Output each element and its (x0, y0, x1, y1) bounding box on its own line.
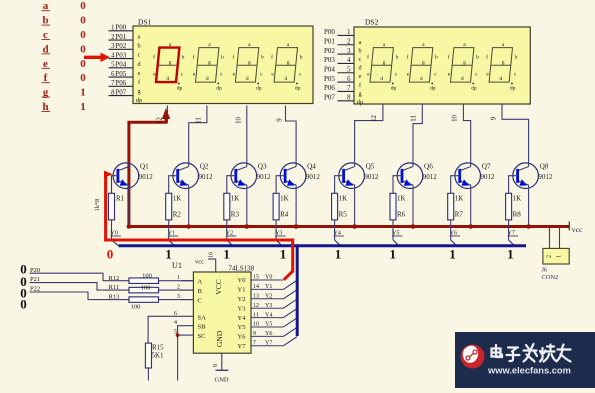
svg-text:b: b (515, 55, 518, 61)
svg-text:9: 9 (277, 118, 284, 122)
transistor Q3 9012 PNP (231, 163, 271, 189)
transistor Q7 9012 PNP (455, 163, 495, 189)
wire P22 to R13 (30, 292, 130, 300)
bus entry U1 Y7 (283, 337, 297, 346)
wire DS1 pin11 to Q2 collector (189, 106, 207, 163)
DS2 pin 8 net P07 (338, 100, 355, 102)
svg-text:b: b (476, 55, 479, 61)
resistor R1 1K (109, 193, 115, 220)
svg-text:P02: P02 (115, 42, 126, 50)
svg-text:B: B (198, 288, 203, 295)
svg-text:1: 1 (165, 247, 172, 262)
DS1 digit 4 seven-segment glyph (274, 48, 297, 83)
svg-text:0: 0 (80, 72, 86, 84)
svg-text:d: d (246, 76, 249, 82)
DS2 digit 1 seven-segment glyph (370, 48, 393, 83)
transistor Q1 9012 PNP (113, 163, 153, 189)
svg-text:0: 0 (80, 15, 86, 27)
svg-text:U1: U1 (172, 261, 182, 270)
wire R13 to U1 (159, 299, 194, 301)
svg-text:1: 1 (335, 247, 342, 262)
junction Q4 emitter on VCC rail (294, 224, 299, 229)
svg-text:f: f (486, 54, 488, 61)
svg-text:g: g (248, 60, 251, 66)
svg-text:Q6: Q6 (424, 163, 433, 171)
ground symbol (216, 369, 229, 371)
svg-text:P02: P02 (324, 47, 335, 55)
DS2 digit 2 seven-segment glyph (409, 48, 432, 83)
DS2 pin 7 net P06 (338, 90, 355, 92)
bus entry Y5 (393, 240, 399, 246)
svg-text:14: 14 (253, 284, 259, 290)
svg-text:13: 13 (253, 294, 259, 300)
wire Q6 base to resistor R6 (393, 176, 402, 194)
wire Q5 base to resistor R5 (335, 176, 344, 194)
junction Q3 emitter on VCC rail (245, 224, 250, 229)
wire Q7 base to resistor R7 (451, 176, 460, 194)
wire R6 to node Y5 (392, 220, 394, 240)
resistor R5 1K (332, 193, 338, 220)
svg-text:c: c (138, 52, 141, 59)
svg-text:b: b (435, 55, 438, 61)
resistor R13 100 (129, 297, 159, 303)
svg-text:dp: dp (136, 97, 142, 104)
bus entry Y4 (335, 240, 341, 246)
svg-text:R3: R3 (231, 211, 240, 219)
svg-text:1: 1 (223, 247, 230, 262)
connector J6 CON2 (543, 248, 569, 264)
svg-text:GND: GND (215, 377, 229, 384)
svg-text:d: d (380, 76, 383, 82)
U1 pin 1 input A (181, 280, 193, 282)
transistor Q6 9012 PNP (397, 163, 437, 189)
svg-text:3: 3 (347, 48, 351, 55)
decoder U1 74LS138 body (193, 272, 251, 353)
svg-text:2: 2 (545, 255, 552, 258)
svg-text:P05: P05 (324, 75, 335, 83)
svg-text:P06: P06 (324, 84, 335, 92)
wire DS1 pin9 to Q4 collector (286, 106, 297, 163)
svg-text:dp: dp (430, 86, 436, 92)
svg-text:1: 1 (390, 247, 397, 262)
wire DS2 pin12 to Q5 collector (355, 104, 383, 162)
DS1 digit 2 seven-segment glyph (196, 48, 219, 83)
DS2 pin 1 net P00 (338, 34, 355, 36)
junction Q1 emitter on VCC rail (127, 224, 132, 229)
U1 GND pin 8 (221, 353, 223, 370)
svg-text:0: 0 (80, 0, 86, 12)
wire R3 to node Y2 (226, 220, 228, 240)
svg-text:b: b (137, 43, 140, 50)
svg-text:P01: P01 (115, 33, 126, 41)
svg-text:9012: 9012 (538, 173, 553, 181)
transistor Q5 9012 PNP (339, 163, 379, 189)
svg-text:1K: 1K (231, 195, 240, 203)
svg-text:d: d (420, 76, 423, 82)
svg-text:P01: P01 (324, 38, 335, 46)
resistor R4 1K (273, 193, 279, 220)
svg-text:11: 11 (253, 312, 259, 318)
svg-text:10: 10 (235, 117, 242, 124)
svg-text:b: b (358, 48, 361, 55)
bus entry U1 Y2 (283, 290, 297, 299)
svg-text:a: a (359, 39, 362, 46)
wire DS1 pin10 to Q3 collector (246, 106, 248, 163)
svg-text:15: 15 (253, 275, 259, 281)
wire J6 pin 2 to VCC rail (549, 227, 551, 249)
wire Q1 emitter to VCC rail (128, 185, 130, 227)
svg-text:CON2: CON2 (542, 274, 559, 281)
svg-text:www.elecfans.com: www.elecfans.com (487, 366, 571, 376)
wire R7 to node Y6 (450, 220, 452, 240)
svg-text:R8: R8 (513, 211, 522, 219)
svg-text:Y4: Y4 (265, 312, 272, 318)
wire R15 down (147, 368, 149, 381)
svg-text:Q3: Q3 (258, 163, 267, 171)
svg-text:SC: SC (198, 333, 206, 340)
transistor Q8 9012 PNP (513, 163, 553, 189)
maroon highlighted wire from VCC rail through Q1 to DS1 pin 12 (129, 117, 166, 227)
svg-text:100: 100 (131, 303, 141, 310)
svg-text:c: c (359, 56, 362, 63)
svg-text:1K: 1K (280, 195, 289, 203)
resistor R12 100 (129, 278, 159, 284)
svg-text:g: g (502, 60, 505, 66)
svg-text:SB: SB (198, 324, 207, 331)
resistor R15 5K1 (145, 343, 151, 368)
U1 pin 10 output Y5 (251, 326, 283, 328)
svg-text:9: 9 (253, 331, 256, 337)
bus entry Y1 (169, 240, 175, 246)
wire SB/SC node down (177, 335, 179, 380)
svg-text:9012: 9012 (306, 173, 321, 181)
wire Q3 emitter to VCC rail (246, 185, 248, 227)
svg-text:DS1: DS1 (138, 18, 152, 27)
svg-text:e: e (138, 70, 141, 77)
svg-text:1: 1 (80, 101, 86, 113)
svg-text:P03: P03 (115, 51, 126, 59)
wire R5 to node Y4 (334, 220, 336, 240)
svg-text:1: 1 (556, 255, 563, 258)
svg-text:0: 0 (107, 247, 114, 262)
svg-text:f: f (153, 54, 155, 61)
wire R1 to node Y0 (111, 220, 113, 240)
svg-text:P07: P07 (324, 94, 335, 102)
svg-text:dp: dp (256, 86, 262, 92)
resistor R7 1K (448, 193, 454, 220)
svg-text:P07: P07 (115, 88, 126, 96)
svg-text:10: 10 (451, 115, 458, 122)
svg-text:d: d (461, 76, 464, 82)
transistor Q2 9012 PNP (173, 163, 213, 189)
svg-text:g: g (208, 60, 211, 66)
svg-text:Q1: Q1 (140, 163, 149, 171)
junction Q7 emitter on VCC rail (468, 224, 473, 229)
svg-text:1K: 1K (339, 195, 348, 203)
svg-text:Q7: Q7 (482, 163, 491, 171)
DS2 pin 2 net P01 (338, 44, 355, 46)
wire DS2 pin11 to Q6 collector (413, 104, 422, 162)
svg-text:11: 11 (410, 115, 417, 122)
DS1 pin 1 net P00 (109, 30, 134, 32)
wire R8 to node Y7 (508, 220, 510, 240)
svg-text:9012: 9012 (364, 173, 379, 181)
wire Q5 emitter to VCC rail (354, 185, 356, 227)
VCC power port tick (568, 222, 570, 231)
svg-text:vcc: vcc (195, 259, 204, 266)
bus entry U1 Y4 (283, 308, 297, 317)
wire Q4 emitter to VCC rail (295, 185, 297, 227)
red highlighted wire from U1 Y0 output to Q1 base (106, 172, 293, 280)
svg-text:74LS138: 74LS138 (229, 265, 255, 273)
svg-text:8: 8 (347, 95, 351, 102)
Y bus vertical wire at U1 (296, 244, 299, 336)
svg-text:b: b (261, 55, 264, 61)
svg-text:9012: 9012 (481, 173, 496, 181)
svg-text:1: 1 (507, 247, 514, 262)
svg-text:VCC: VCC (214, 279, 223, 294)
svg-text:Q2: Q2 (200, 163, 209, 171)
svg-text:7: 7 (347, 85, 351, 92)
svg-text:5: 5 (347, 67, 351, 74)
DS1 digit 3 seven-segment glyph (235, 48, 258, 83)
DS2 pin 6 net P05 (338, 81, 355, 83)
bus entry U1 Y3 (283, 299, 297, 308)
svg-text:Y7: Y7 (265, 341, 272, 347)
svg-text:J6: J6 (542, 267, 548, 274)
svg-text:9: 9 (491, 116, 498, 120)
wire P21 to R11 (30, 283, 130, 291)
svg-text:dp: dp (216, 86, 222, 92)
svg-text:R15: R15 (152, 344, 164, 352)
svg-text:P00: P00 (324, 28, 335, 36)
svg-text:f: f (271, 54, 273, 61)
bus entry Y3 (276, 240, 282, 246)
DS2 digit 3 seven-segment glyph (451, 48, 474, 83)
svg-text:Y6: Y6 (238, 334, 247, 341)
DS1 digit 1 seven-segment glyph with red lit-segment highlight (156, 48, 179, 83)
svg-text:0: 0 (80, 29, 86, 41)
watermark chinese title (492, 344, 571, 362)
U1 pin 14 output Y1 (251, 288, 283, 290)
svg-text:b: b (396, 55, 399, 61)
VCC rail wire (129, 225, 569, 228)
svg-text:11: 11 (196, 117, 203, 124)
svg-text:dp: dp (357, 99, 363, 106)
svg-text:d: d (166, 76, 169, 82)
svg-text:Q5: Q5 (366, 163, 375, 171)
svg-text:100: 100 (141, 284, 151, 291)
svg-text:dp: dp (510, 86, 516, 92)
svg-text:Y0: Y0 (265, 275, 272, 281)
resistor R6 1K (390, 193, 396, 220)
svg-text:5K1: 5K1 (152, 352, 165, 360)
svg-text:Y5: Y5 (238, 324, 246, 331)
junction SB/SC node (176, 333, 180, 337)
wire J6 pin 1 to VCC rail (559, 227, 561, 249)
wire Q2 base to resistor R2 (169, 176, 178, 194)
svg-text:g: g (287, 60, 290, 66)
svg-text:Y3: Y3 (265, 303, 272, 309)
junction Q8 emitter on VCC rail (526, 224, 531, 229)
bus entry U1 Y5 (283, 318, 297, 327)
svg-text:P06: P06 (115, 79, 126, 87)
svg-text:f: f (406, 54, 408, 61)
U1 pin 15 output Y0 (251, 279, 283, 281)
svg-text:1K: 1K (513, 195, 522, 203)
svg-text:a: a (138, 34, 141, 41)
svg-text:d: d (500, 76, 503, 82)
watermark box (455, 332, 595, 388)
svg-text:9012: 9012 (423, 173, 438, 181)
svg-text:0: 0 (20, 297, 27, 312)
svg-text:P04: P04 (324, 66, 335, 74)
svg-text:dp: dp (471, 86, 477, 92)
wire U1 SB pin 4 to SC junction (178, 326, 194, 335)
svg-text:g: g (463, 60, 466, 66)
svg-text:10: 10 (253, 322, 259, 328)
svg-text:1K: 1K (455, 195, 464, 203)
svg-text:1: 1 (449, 247, 456, 262)
svg-text:1: 1 (280, 247, 287, 262)
svg-text:Q8: Q8 (540, 163, 549, 171)
display DS1 body (133, 26, 313, 104)
svg-text:12: 12 (157, 117, 164, 124)
svg-text:g: g (383, 60, 386, 66)
resistor R11 100 (129, 287, 159, 293)
svg-text:R2: R2 (173, 211, 182, 219)
wire Q6 emitter to VCC rail (412, 185, 414, 227)
svg-text:P04: P04 (115, 61, 126, 69)
svg-text:R12: R12 (109, 275, 120, 282)
bus entry Y7 (509, 240, 515, 246)
U1 pin 13 output Y2 (251, 298, 283, 300)
DS2 digit 4 seven-segment glyph (489, 48, 512, 83)
svg-text:b: b (182, 55, 185, 61)
svg-text:P00: P00 (115, 24, 126, 32)
svg-text:d: d (285, 76, 288, 82)
red arrow pointing at DS1 pin 4 row (84, 56, 102, 59)
DS2 pin 4 net P03 (338, 62, 355, 64)
svg-text:1: 1 (80, 87, 86, 99)
svg-text:SA: SA (198, 314, 207, 321)
svg-text:1K: 1K (397, 195, 406, 203)
svg-text:R4: R4 (280, 211, 289, 219)
display DS2 body (354, 27, 530, 104)
svg-text:9012: 9012 (257, 173, 272, 181)
svg-text:0: 0 (80, 58, 86, 70)
svg-text:dp: dp (391, 86, 397, 92)
DS1 pin 4 net P03 (109, 58, 134, 60)
svg-text:e: e (359, 73, 362, 80)
svg-text:vcc: vcc (572, 225, 583, 234)
svg-text:P05: P05 (115, 70, 126, 78)
wire Q1 base to resistor R1 (112, 176, 118, 194)
svg-text:f: f (367, 54, 369, 61)
resistor R3 1K (224, 193, 230, 220)
bus entry U1 Y6 (283, 327, 297, 336)
svg-text:g: g (137, 88, 140, 95)
svg-text:f: f (193, 54, 195, 61)
svg-text:9012: 9012 (199, 173, 214, 181)
wire R4 to node Y3 (275, 220, 277, 240)
wire Q2 emitter to VCC rail (188, 185, 190, 227)
svg-text:b: b (221, 55, 224, 61)
svg-text:GND: GND (215, 330, 224, 347)
DS1 pin 3 net P02 (109, 48, 134, 50)
svg-text:Y7: Y7 (238, 343, 247, 350)
svg-text:R1: R1 (116, 195, 125, 203)
wire U1 SA pin 6 to R15 (148, 316, 193, 343)
wire DS2 pin10 to Q7 collector (463, 104, 470, 162)
svg-text:4: 4 (174, 320, 177, 326)
wire Q8 base to resistor R8 (509, 176, 518, 194)
svg-text:Y4: Y4 (238, 315, 247, 322)
svg-text:dp: dp (177, 86, 183, 92)
svg-text:Y0: Y0 (238, 277, 246, 284)
U1 pin 11 output Y4 (251, 317, 283, 319)
wire R2 to node Y1 (168, 220, 170, 240)
DS2 pin 3 net P02 (338, 53, 355, 55)
svg-text:1k*8: 1k*8 (94, 199, 101, 211)
svg-text:g: g (169, 60, 172, 66)
svg-text:f: f (232, 54, 234, 61)
svg-text:C: C (198, 298, 202, 305)
svg-text:DS2: DS2 (365, 18, 379, 27)
junction Q5 emitter on VCC rail (352, 224, 357, 229)
svg-text:Q4: Q4 (307, 163, 316, 171)
svg-text:12: 12 (253, 303, 259, 309)
resistor R2 1K (166, 193, 172, 220)
svg-text:P03: P03 (324, 56, 335, 64)
svg-text:1: 1 (111, 25, 114, 32)
wire Q7 emitter to VCC rail (470, 185, 472, 227)
transistor Q4 9012 PNP (280, 163, 320, 189)
wire U1 SC pin 5 (178, 334, 194, 336)
svg-text:b: b (300, 55, 303, 61)
svg-text:16: 16 (209, 252, 215, 258)
svg-text:8: 8 (213, 364, 219, 367)
svg-text:9012: 9012 (139, 173, 154, 181)
svg-text:1K: 1K (173, 195, 182, 203)
bus entry Y2 (227, 240, 233, 246)
svg-text:R6: R6 (397, 211, 406, 219)
svg-text:Y1: Y1 (265, 284, 272, 290)
svg-text:R13: R13 (109, 294, 120, 301)
svg-text:6: 6 (347, 76, 351, 83)
U1 VCC pin 16 power port (215, 259, 217, 272)
svg-text:R5: R5 (339, 211, 348, 219)
junction Q6 emitter on VCC rail (411, 224, 416, 229)
Y bus horizontal wire (119, 244, 526, 247)
svg-text:dp: dp (295, 86, 301, 92)
svg-text:g: g (422, 60, 425, 66)
U1 pin 12 output Y3 (251, 307, 283, 309)
wire R11 to U1 (159, 289, 194, 291)
DS1 pin 8 net P07 (109, 95, 134, 97)
wire P20 to R12 (30, 273, 130, 281)
svg-text:R11: R11 (109, 284, 120, 291)
svg-text:Y6: Y6 (265, 331, 272, 337)
wire Q8 emitter to VCC rail (528, 185, 530, 227)
svg-text:2: 2 (347, 39, 351, 46)
U1 pin 7 output Y7 (251, 345, 283, 347)
svg-text:Y1: Y1 (238, 287, 246, 294)
svg-text:f: f (448, 54, 450, 61)
wire DS2 pin9 to Q8 collector (502, 104, 529, 162)
resistor R8 1K (506, 193, 512, 220)
svg-text:12: 12 (371, 115, 378, 122)
